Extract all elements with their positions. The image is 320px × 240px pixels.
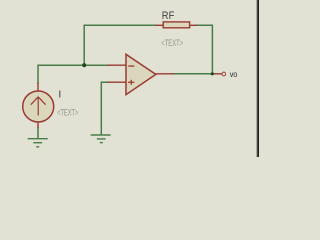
svg-text:<TEXT>: <TEXT> bbox=[161, 38, 183, 49]
svg-text:<TEXT>: <TEXT> bbox=[57, 108, 78, 118]
svg-text:RF: RF bbox=[162, 10, 175, 22]
svg-text:I: I bbox=[58, 89, 61, 101]
svg-text:vo: vo bbox=[230, 69, 238, 79]
